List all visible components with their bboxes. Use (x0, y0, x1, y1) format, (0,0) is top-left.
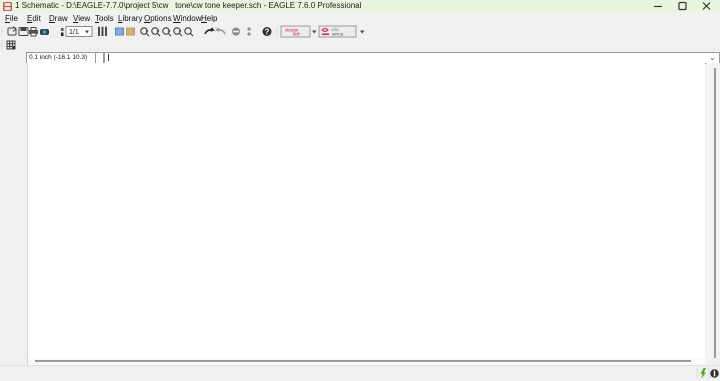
svg-text:?: ? (265, 28, 270, 37)
svg-text:1/1: 1/1 (69, 29, 79, 36)
svg-text:LTC: LTC (332, 28, 339, 32)
svg-text:SPICE: SPICE (332, 33, 344, 37)
svg-text:link: link (293, 32, 301, 37)
